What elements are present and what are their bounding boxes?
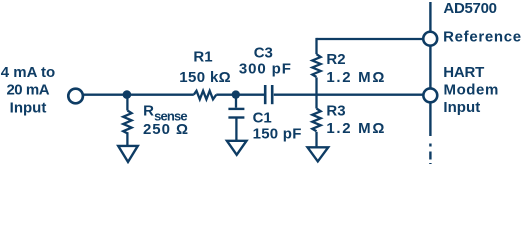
resistor R1 zigzag (194, 91, 217, 100)
capacitor C1 plates (228, 108, 244, 110)
wire Rsense top lead (126, 95, 128, 111)
wire R2 bottom lead (315, 77, 317, 94)
svg-text:R: R (143, 102, 154, 119)
svg-text:4 mA to: 4 mA to (1, 64, 55, 81)
svg-text:Reference: Reference (443, 29, 521, 46)
resistor R2 zigzag (312, 54, 320, 77)
svg-text:AD5700: AD5700 (443, 0, 497, 17)
svg-text:20 mA: 20 mA (6, 82, 49, 99)
terminal circle 4-20mA input (68, 89, 83, 104)
wire top to Reference (317, 38, 423, 40)
svg-text:Modem: Modem (444, 82, 499, 99)
terminal circle AD5700 Reference pin (423, 32, 437, 46)
svg-text:1.2 MΩ: 1.2 MΩ (326, 69, 384, 86)
wire R1 to C3 (216, 94, 264, 96)
terminal circle HART modem input pin (423, 88, 437, 102)
AD5700 chip edge line solid part (429, 2, 431, 136)
svg-text:250 Ω: 250 Ω (143, 121, 188, 138)
svg-text:Input: Input (10, 99, 47, 116)
svg-text:C3: C3 (254, 45, 273, 62)
svg-text:R2: R2 (326, 51, 345, 68)
svg-text:C1: C1 (253, 110, 272, 127)
ground of Rsense (118, 146, 138, 162)
wire C3 to HART modem input (274, 94, 423, 96)
AD5700 chip edge dash-dot continuation (429, 136, 431, 164)
resistor Rsense zigzag (123, 111, 131, 134)
junction dot node A (123, 90, 132, 99)
wire R3 bottom lead (315, 132, 317, 147)
svg-text:R1: R1 (193, 49, 212, 66)
wire C1 top lead (235, 95, 237, 108)
wire C1 bottom lead (235, 119, 237, 141)
wire R2 top lead (315, 38, 317, 54)
svg-text:1.2 MΩ: 1.2 MΩ (326, 120, 384, 137)
svg-text:300 pF: 300 pF (239, 61, 291, 78)
svg-text:150 kΩ: 150 kΩ (179, 69, 230, 86)
svg-text:R3: R3 (326, 103, 345, 120)
wire R3 top lead (315, 95, 317, 109)
svg-text:HART: HART (443, 64, 484, 81)
junction dot node B (232, 90, 240, 98)
svg-text:150 pF: 150 pF (253, 126, 302, 143)
ground of C1 (227, 141, 247, 155)
wire main horizontal left segment (83, 94, 194, 96)
wire Rsense bottom lead (126, 132, 128, 146)
ground of R3 (308, 147, 329, 161)
capacitor C3 plates (264, 85, 267, 104)
resistor R3 zigzag (312, 109, 320, 132)
svg-text:Input: Input (443, 99, 480, 116)
